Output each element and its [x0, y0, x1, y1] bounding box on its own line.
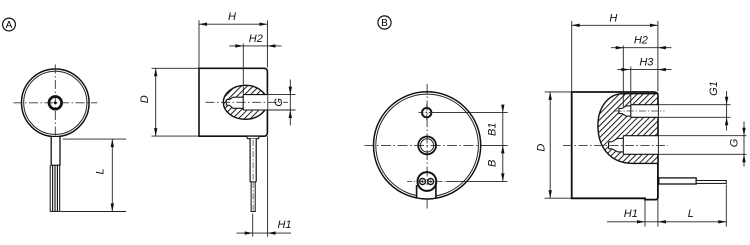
dimension H1 and L (B) — [607, 185, 726, 227]
dimension G (B) — [659, 122, 747, 167]
svg-text:B: B — [487, 160, 499, 167]
dimension B1 and B extension lines — [433, 113, 508, 182]
A side cable wire — [251, 182, 256, 212]
svg-text:G: G — [728, 138, 740, 147]
B front top hole — [419, 105, 436, 122]
svg-text:H3: H3 — [639, 57, 654, 69]
svg-text:A: A — [6, 20, 13, 31]
svg-text:H2: H2 — [634, 35, 648, 47]
B side cable wire — [696, 181, 726, 184]
B front vertical centerline — [426, 84, 428, 209]
dimension H1 (A) — [237, 136, 292, 236]
A front hub ring — [49, 97, 62, 110]
A side cable boss — [246, 136, 259, 139]
svg-text:H1: H1 — [624, 208, 638, 220]
A front cable wires — [50, 165, 61, 211]
A side cable sleeve — [250, 139, 256, 182]
B side cable sleeve — [659, 178, 696, 184]
H2 extension line into body (B) — [622, 46, 624, 109]
dimension D (B) — [535, 92, 571, 198]
B side view body — [572, 92, 658, 200]
A side view bore (slot) — [226, 95, 267, 110]
A front vertical centerline — [54, 65, 56, 142]
svg-text:L: L — [688, 208, 694, 220]
A side view pot interior (hatched dome) — [223, 85, 267, 119]
dimension G1 (B) — [659, 81, 731, 130]
dimension L — [61, 139, 127, 211]
svg-text:H2: H2 — [249, 33, 263, 45]
A front view outer circle — [22, 69, 90, 137]
svg-text:D: D — [535, 144, 547, 152]
dimension D (A) — [139, 68, 199, 136]
dimension H3 (B) — [618, 57, 672, 72]
svg-text:L: L — [94, 168, 106, 174]
dimension B1 and B — [486, 105, 504, 182]
dimension H (A) — [199, 11, 267, 67]
A side view body — [199, 68, 267, 136]
A front view inner circle — [24, 71, 87, 134]
svg-text:B: B — [381, 18, 388, 29]
B side main centerline — [563, 144, 668, 146]
B side upper bore (slot G1) — [615, 105, 665, 118]
B front view outer circle — [374, 92, 481, 199]
B front horizontal centerline — [365, 144, 482, 146]
B front view inner circle — [376, 94, 479, 197]
svg-text:H1: H1 — [277, 219, 291, 231]
B side lower bore (slot G) — [609, 136, 658, 155]
H3 extension line into body (B) — [630, 67, 632, 105]
svg-text:H: H — [609, 12, 617, 24]
A front cable sleeve — [51, 137, 61, 166]
A side view centerline — [206, 101, 289, 103]
B front plug socket — [407, 172, 447, 199]
svg-text:G: G — [273, 98, 285, 107]
dimension H2 (B) — [611, 35, 672, 50]
svg-text:D: D — [139, 95, 151, 103]
H2 extension line into body — [242, 44, 244, 95]
dimension H2 (A) — [229, 33, 281, 48]
view label A — [3, 18, 16, 31]
dimension G (A) — [268, 80, 296, 126]
svg-text:B1: B1 — [486, 122, 498, 135]
A front hub dot — [54, 101, 57, 104]
svg-text:G1: G1 — [708, 81, 720, 96]
view label B — [378, 16, 391, 29]
A front horizontal centerline — [14, 102, 98, 104]
svg-text:H: H — [228, 11, 236, 23]
dimension H (B) — [572, 12, 658, 91]
B side view pot interior (hatched dome) — [598, 94, 658, 164]
B front center hole — [418, 137, 436, 155]
